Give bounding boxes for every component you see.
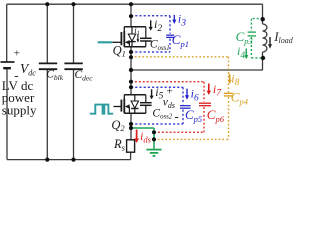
svg-text:supply: supply (2, 103, 37, 118)
svg-text:+: + (14, 48, 20, 60)
svg-text:+: + (167, 85, 173, 97)
svg-text:-: - (175, 109, 179, 124)
